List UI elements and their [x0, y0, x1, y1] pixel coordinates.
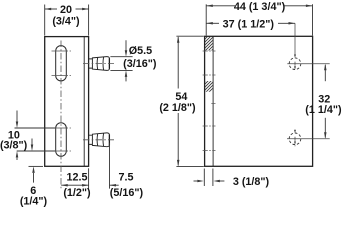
svg-text:(2 1/8"): (2 1/8") [159, 102, 196, 114]
svg-text:12.5: 12.5 [66, 171, 87, 183]
svg-text:(3/16"): (3/16") [123, 58, 157, 70]
svg-text:7.5: 7.5 [118, 171, 133, 183]
svg-text:(3/8"): (3/8") [0, 140, 28, 152]
svg-text:(1 1/4"): (1 1/4") [305, 104, 342, 116]
svg-text:(1/4"): (1/4") [20, 195, 48, 207]
svg-text:3 (1/8"): 3 (1/8") [233, 176, 270, 188]
svg-text:20: 20 [60, 4, 72, 16]
svg-text:37 (1 1/2"): 37 (1 1/2") [223, 19, 275, 31]
svg-text:44 (1 3/4"): 44 (1 3/4") [234, 1, 286, 13]
svg-text:(5/16"): (5/16") [110, 187, 144, 199]
svg-text:Ø5.5: Ø5.5 [129, 45, 152, 57]
svg-text:(1/2"): (1/2") [63, 187, 91, 199]
svg-text:(3/4"): (3/4") [52, 16, 80, 28]
